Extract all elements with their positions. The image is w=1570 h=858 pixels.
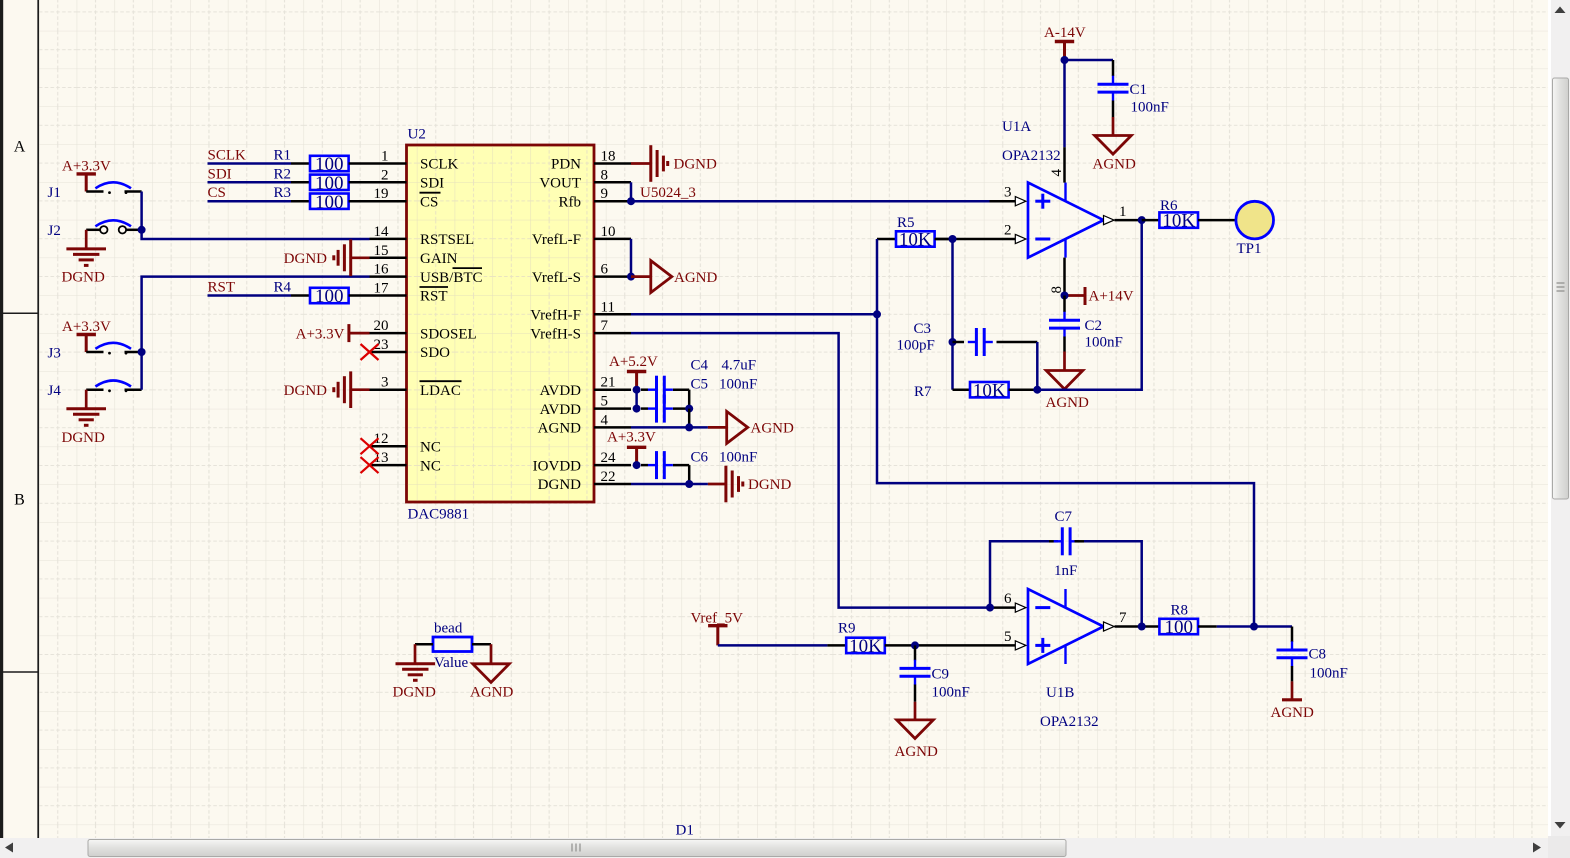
svg-text:SDI: SDI — [420, 176, 444, 192]
svg-text:J3: J3 — [48, 346, 61, 362]
svg-text:7: 7 — [601, 318, 609, 334]
svg-text:SCLK: SCLK — [420, 157, 459, 173]
svg-text:6: 6 — [1004, 591, 1012, 607]
power A+5.2V at U2 pin 21 — [609, 354, 658, 390]
resistor R4 — [273, 280, 369, 308]
svg-text:A-14V: A-14V — [1044, 25, 1086, 41]
svg-text:DGND: DGND — [62, 270, 105, 286]
svg-text:TP1: TP1 — [1237, 241, 1262, 257]
svg-text:AVDD: AVDD — [540, 383, 582, 399]
svg-text:A+3.3V: A+3.3V — [296, 326, 345, 342]
svg-text:DGND: DGND — [538, 477, 581, 493]
U2 pin 13 (NC) — [370, 450, 441, 474]
svg-text:R3: R3 — [273, 185, 291, 201]
svg-text:DGND: DGND — [748, 477, 791, 493]
U2 pin 4 (AGND) — [538, 412, 631, 436]
ground AGND at U2 pin 4 — [631, 411, 794, 443]
U2 pin 8 (VOUT) — [539, 167, 631, 191]
wire C3/R7 left leg — [951, 239, 954, 390]
resistor R1 — [273, 148, 369, 176]
svg-text:R7: R7 — [914, 384, 932, 400]
svg-text:R9: R9 — [838, 621, 856, 637]
svg-text:A+3.3V: A+3.3V — [62, 319, 111, 335]
svg-text:D1: D1 — [676, 823, 694, 839]
svg-text:SDOSEL: SDOSEL — [420, 326, 477, 342]
ground DGND (J4) — [62, 390, 107, 446]
svg-text:J2: J2 — [48, 223, 61, 239]
svg-text:C9: C9 — [932, 667, 950, 683]
U1B pin 5 — [915, 629, 1026, 650]
svg-text:24: 24 — [601, 450, 617, 466]
junction pin 5 — [633, 405, 641, 413]
svg-text:4.7uF: 4.7uF — [722, 358, 757, 374]
svg-text:AGND: AGND — [1046, 395, 1089, 411]
svg-text:RST: RST — [420, 289, 448, 305]
wire CS — [208, 200, 292, 203]
wire A-14V to U1A pin 4 — [1063, 60, 1066, 147]
svg-text:R8: R8 — [1171, 603, 1189, 619]
wire J1/J2 to RSTSEL — [142, 192, 370, 240]
wire SCLK — [208, 162, 292, 165]
capacitor C2 — [1049, 296, 1123, 352]
resistor R8 — [1159, 603, 1254, 639]
svg-text:C7: C7 — [1055, 509, 1073, 525]
svg-text:C2: C2 — [1085, 318, 1103, 334]
svg-text:11: 11 — [601, 299, 615, 315]
svg-text:J1: J1 — [48, 185, 61, 201]
svg-text:9: 9 — [601, 186, 609, 202]
svg-text:A: A — [14, 139, 26, 156]
resistor R7 — [914, 380, 1037, 401]
svg-text:DGND: DGND — [62, 430, 105, 446]
junction U1B output — [1138, 623, 1146, 631]
svg-text:100nF: 100nF — [1131, 100, 1169, 116]
U2 pin 23 (SDO) — [370, 337, 451, 361]
svg-text:18: 18 — [601, 149, 616, 165]
U2 pin 5 (AVDD) — [540, 394, 631, 418]
svg-text:CS: CS — [420, 194, 438, 210]
U2 pin 17 (RST) — [370, 281, 448, 305]
svg-text:GAIN: GAIN — [420, 251, 458, 267]
svg-text:1: 1 — [1119, 204, 1127, 220]
resistor R3 — [273, 185, 369, 213]
svg-text:R1: R1 — [273, 148, 291, 164]
junction R5 right / C3 top — [949, 235, 957, 243]
ground DGND at U2 pin 15 — [284, 240, 370, 277]
svg-text:8: 8 — [601, 167, 609, 183]
resistor R6 — [1142, 198, 1236, 232]
svg-text:100nF: 100nF — [719, 376, 757, 392]
svg-text:14: 14 — [374, 224, 390, 240]
svg-text:DGND: DGND — [674, 157, 717, 173]
svg-text:DGND: DGND — [284, 251, 327, 267]
U1A pin 3 — [990, 185, 1026, 206]
svg-text:19: 19 — [374, 186, 389, 202]
svg-text:A+3.3V: A+3.3V — [607, 430, 656, 446]
svg-text:5: 5 — [1004, 629, 1012, 645]
svg-text:5: 5 — [601, 394, 609, 410]
U1B pin 7 output — [1104, 610, 1160, 631]
svg-text:AGND: AGND — [470, 685, 513, 701]
svg-text:AVDD: AVDD — [540, 402, 582, 418]
svg-text:10: 10 — [601, 224, 616, 240]
svg-text:NC: NC — [420, 458, 441, 474]
svg-text:16: 16 — [374, 262, 390, 278]
capacitor C6 — [641, 450, 757, 484]
resistor R9 — [827, 621, 915, 658]
svg-text:AGND: AGND — [1093, 157, 1136, 173]
net label SCLK — [208, 148, 247, 164]
svg-text:22: 22 — [601, 469, 616, 485]
junction C6/DGND row — [685, 480, 693, 488]
svg-text:U1A: U1A — [1002, 119, 1031, 135]
junction pin 24 — [633, 461, 641, 469]
U2 pin 9 (Rfb) — [559, 186, 632, 210]
wire cap bank to AGND row — [688, 409, 691, 428]
svg-text:R5: R5 — [897, 215, 915, 231]
svg-text:1nF: 1nF — [1054, 563, 1077, 579]
svg-text:20: 20 — [374, 318, 389, 334]
U2 pin 3 (LDAC) — [370, 375, 461, 399]
svg-text:Value: Value — [434, 655, 468, 671]
junction U1B pin 6 — [986, 604, 994, 612]
U1A pin 2 — [935, 223, 1026, 244]
svg-text:C3: C3 — [914, 321, 932, 337]
svg-text:USB/BTC: USB/BTC — [420, 270, 483, 286]
test point TP1 — [1236, 201, 1274, 257]
capacitor C7 feedback — [990, 509, 1142, 627]
wire R8 to C8 — [1254, 625, 1292, 628]
svg-text:100: 100 — [315, 192, 344, 213]
net label CS — [208, 185, 226, 201]
svg-text:17: 17 — [374, 281, 390, 297]
overbar CS pin name — [420, 192, 441, 194]
U2 pin 18 (PDN) — [551, 149, 631, 173]
svg-text:VrefH-S: VrefH-S — [530, 326, 581, 342]
svg-text:CS: CS — [208, 185, 226, 201]
svg-text:LDAC: LDAC — [420, 383, 461, 399]
U1A pin 1 output — [1104, 204, 1142, 225]
svg-text:B: B — [14, 492, 25, 509]
junction A-14V node — [1061, 56, 1069, 64]
ground DGND (J2) — [62, 230, 107, 286]
svg-text:U2: U2 — [408, 127, 426, 143]
svg-text:21: 21 — [601, 375, 616, 391]
svg-text:100: 100 — [315, 286, 344, 307]
overbar LDAC pin name — [420, 380, 462, 382]
svg-text:10K: 10K — [899, 230, 932, 251]
svg-text:AGND: AGND — [1271, 705, 1314, 721]
ground DGND at U2 pin 18 — [631, 145, 717, 182]
IC U2 DAC9881 body — [407, 127, 595, 523]
svg-text:SDO: SDO — [420, 345, 450, 361]
junction C4/C5 right — [685, 405, 693, 413]
U1A pin 4 — [1049, 147, 1065, 182]
wire J3/J4 to USB/BTC — [142, 277, 370, 390]
svg-text:NC: NC — [420, 439, 441, 455]
wire VrefH-F to R5 node — [631, 313, 877, 316]
junction R9/C9 — [911, 641, 919, 649]
svg-text:3: 3 — [1004, 185, 1012, 201]
svg-text:VOUT: VOUT — [539, 176, 581, 192]
net label RST — [208, 280, 236, 296]
svg-text:OPA2132: OPA2132 — [1040, 714, 1099, 730]
svg-text:100nF: 100nF — [719, 450, 757, 466]
svg-text:AGND: AGND — [895, 744, 938, 760]
svg-text:100nF: 100nF — [932, 685, 970, 701]
junction R7 right — [1033, 386, 1041, 394]
svg-text:J4: J4 — [48, 383, 62, 399]
svg-text:C4: C4 — [691, 358, 709, 374]
no-connect X at U2 pin 13 — [361, 457, 379, 473]
svg-text:DAC9881: DAC9881 — [408, 507, 470, 523]
svg-text:AGND: AGND — [674, 270, 717, 286]
ground AGND under C1 — [1093, 117, 1136, 173]
svg-text:100: 100 — [315, 173, 344, 194]
op-amp U1A — [1002, 119, 1104, 258]
ground AGND under C9 — [895, 702, 938, 760]
junction pin 8 node — [1061, 292, 1069, 300]
junction AGND row — [685, 423, 693, 431]
svg-text:3: 3 — [381, 375, 389, 391]
svg-text:10K: 10K — [1162, 211, 1195, 232]
ferrite bead FB — [415, 621, 491, 672]
overbar BTC of USB/BTC — [453, 267, 483, 269]
capacitor C8 — [1277, 627, 1348, 682]
svg-text:bead: bead — [434, 621, 463, 637]
ground AGND at U2 pin 6 — [631, 261, 717, 293]
svg-text:VrefH-F: VrefH-F — [530, 308, 581, 324]
U2 pin 15 (GAIN) — [370, 243, 458, 267]
ground DGND at bead — [393, 644, 436, 700]
U2 pin 6 (VrefL-S) — [532, 262, 631, 286]
U2 pin 10 (VrefL-F) — [532, 224, 631, 248]
wire Vref_5V to R9 — [718, 644, 828, 647]
U2 pin 19 (CS) — [370, 186, 439, 210]
svg-text:A+3.3V: A+3.3V — [62, 159, 111, 175]
svg-text:C5: C5 — [691, 376, 709, 392]
U2 pin 11 (VrefH-F) — [530, 299, 631, 323]
U2 pin 12 (NC) — [370, 431, 441, 455]
junction U1A output — [1138, 216, 1146, 224]
U2 pin 21 (AVDD) — [540, 375, 631, 399]
svg-text:Rfb: Rfb — [559, 194, 582, 210]
U2 pin 24 (IOVDD) — [533, 450, 631, 474]
wire VrefH-S to U1B pin 6 — [631, 333, 990, 607]
svg-text:100: 100 — [1164, 617, 1193, 638]
capacitor C3 — [897, 321, 1038, 390]
capacitor C4 — [641, 358, 756, 404]
resistor R5 — [877, 215, 953, 251]
U2 pin 22 (DGND) — [538, 469, 631, 493]
overbar RST pin name — [420, 286, 449, 288]
ground AGND under C2 — [1046, 352, 1089, 412]
svg-text:A+14V: A+14V — [1089, 289, 1134, 305]
wire RST — [208, 294, 292, 297]
wire SDI — [208, 181, 292, 184]
svg-text:AGND: AGND — [538, 421, 581, 437]
op-amp U1B — [1028, 589, 1104, 730]
wire VrefL-F/VrefL-S node — [630, 239, 633, 277]
power A+14V at U1A pin 8 — [1065, 287, 1134, 305]
junction VrefH-F tap — [873, 310, 881, 318]
power A+3.3V at U2 pin 24 — [607, 430, 656, 466]
wire pin21-pin5 — [635, 390, 638, 409]
wire R5 left leg down — [877, 239, 1254, 627]
svg-text:10K: 10K — [849, 636, 882, 657]
svg-text:IOVDD: IOVDD — [533, 458, 581, 474]
connector J2 — [48, 220, 142, 239]
ground DGND at U2 pin 3 — [284, 371, 370, 408]
svg-text:6: 6 — [601, 262, 609, 278]
svg-text:DGND: DGND — [284, 383, 327, 399]
junction J2 right pin — [138, 226, 146, 234]
junction R8 right — [1250, 623, 1258, 631]
svg-text:VrefL-S: VrefL-S — [532, 270, 581, 286]
svg-text:15: 15 — [374, 243, 389, 259]
svg-text:100nF: 100nF — [1310, 666, 1348, 682]
U1A pin 8 — [1049, 258, 1065, 296]
svg-text:2: 2 — [1004, 223, 1012, 239]
svg-text:C6: C6 — [691, 450, 709, 466]
power A+3.3V at U2 pin 20 — [296, 324, 370, 342]
svg-text:R4: R4 — [273, 280, 291, 296]
svg-text:U5024_3: U5024_3 — [640, 185, 696, 201]
ground AGND under C8 (bar) — [1271, 681, 1314, 721]
no-connect X at U2 pin 12 — [361, 438, 379, 454]
capacitor C9 — [900, 645, 970, 701]
svg-text:A+5.2V: A+5.2V — [609, 354, 658, 370]
svg-text:C1: C1 — [1130, 82, 1148, 98]
U2 pin 16 (USB/BTC) — [370, 262, 483, 286]
U2 pin 20 (SDOSEL) — [370, 318, 477, 342]
svg-text:10K: 10K — [973, 380, 1006, 401]
svg-text:C8: C8 — [1309, 647, 1327, 663]
svg-text:R2: R2 — [273, 166, 291, 182]
wire A-14V to C1 — [1065, 59, 1114, 62]
connector J3 — [48, 343, 142, 362]
svg-text:1: 1 — [381, 149, 389, 165]
svg-text:SDI: SDI — [208, 166, 232, 182]
svg-text:2: 2 — [381, 167, 389, 183]
junction J3 right pin — [138, 348, 146, 356]
power A+3.3V (J3) — [62, 319, 111, 352]
junction pin 21 — [633, 386, 641, 394]
svg-text:VrefL-F: VrefL-F — [532, 232, 581, 248]
wire VOUT/Rfb node — [631, 182, 990, 201]
U2 pin 7 (VrefH-S) — [530, 318, 631, 342]
svg-text:RSTSEL: RSTSEL — [420, 232, 474, 248]
junction Rfb node — [627, 197, 635, 205]
connector J1 — [48, 182, 142, 201]
svg-text:4: 4 — [601, 412, 609, 428]
no-connect X at U2 pin 23 — [361, 344, 379, 360]
net label U5024_3 — [640, 185, 696, 201]
svg-text:DGND: DGND — [393, 685, 436, 701]
capacitor C5 — [641, 376, 757, 422]
net label SDI — [208, 166, 232, 182]
junction VrefL-S — [627, 273, 635, 281]
U2 pin 2 (SDI) — [370, 167, 445, 191]
svg-text:4: 4 — [1049, 169, 1065, 177]
power A+3.3V (J1) — [62, 159, 111, 192]
connector J4 — [48, 381, 142, 400]
ground AGND at bead — [470, 644, 513, 700]
svg-text:AGND: AGND — [751, 421, 794, 437]
wire R7 to U1A output — [1037, 220, 1141, 390]
svg-text:SCLK: SCLK — [208, 148, 247, 164]
U2 pin 14 (RSTSEL) — [370, 224, 475, 248]
svg-text:U1B: U1B — [1046, 685, 1074, 701]
capacitor C1 — [1098, 60, 1169, 117]
U1B pin 6 — [990, 591, 1026, 612]
power A-14V — [1044, 25, 1086, 60]
svg-text:7: 7 — [1119, 610, 1127, 626]
svg-text:100nF: 100nF — [1085, 335, 1123, 351]
svg-text:OPA2132: OPA2132 — [1002, 148, 1061, 164]
junction C3 left — [949, 338, 957, 346]
resistor R2 — [273, 166, 369, 194]
svg-text:PDN: PDN — [551, 157, 581, 173]
svg-text:RST: RST — [208, 280, 236, 296]
svg-text:100pF: 100pF — [897, 338, 935, 354]
U2 pin 1 (SCLK) — [370, 149, 459, 173]
power Vref_5V — [691, 611, 744, 646]
ground DGND at U2 pin 22 — [631, 466, 791, 503]
